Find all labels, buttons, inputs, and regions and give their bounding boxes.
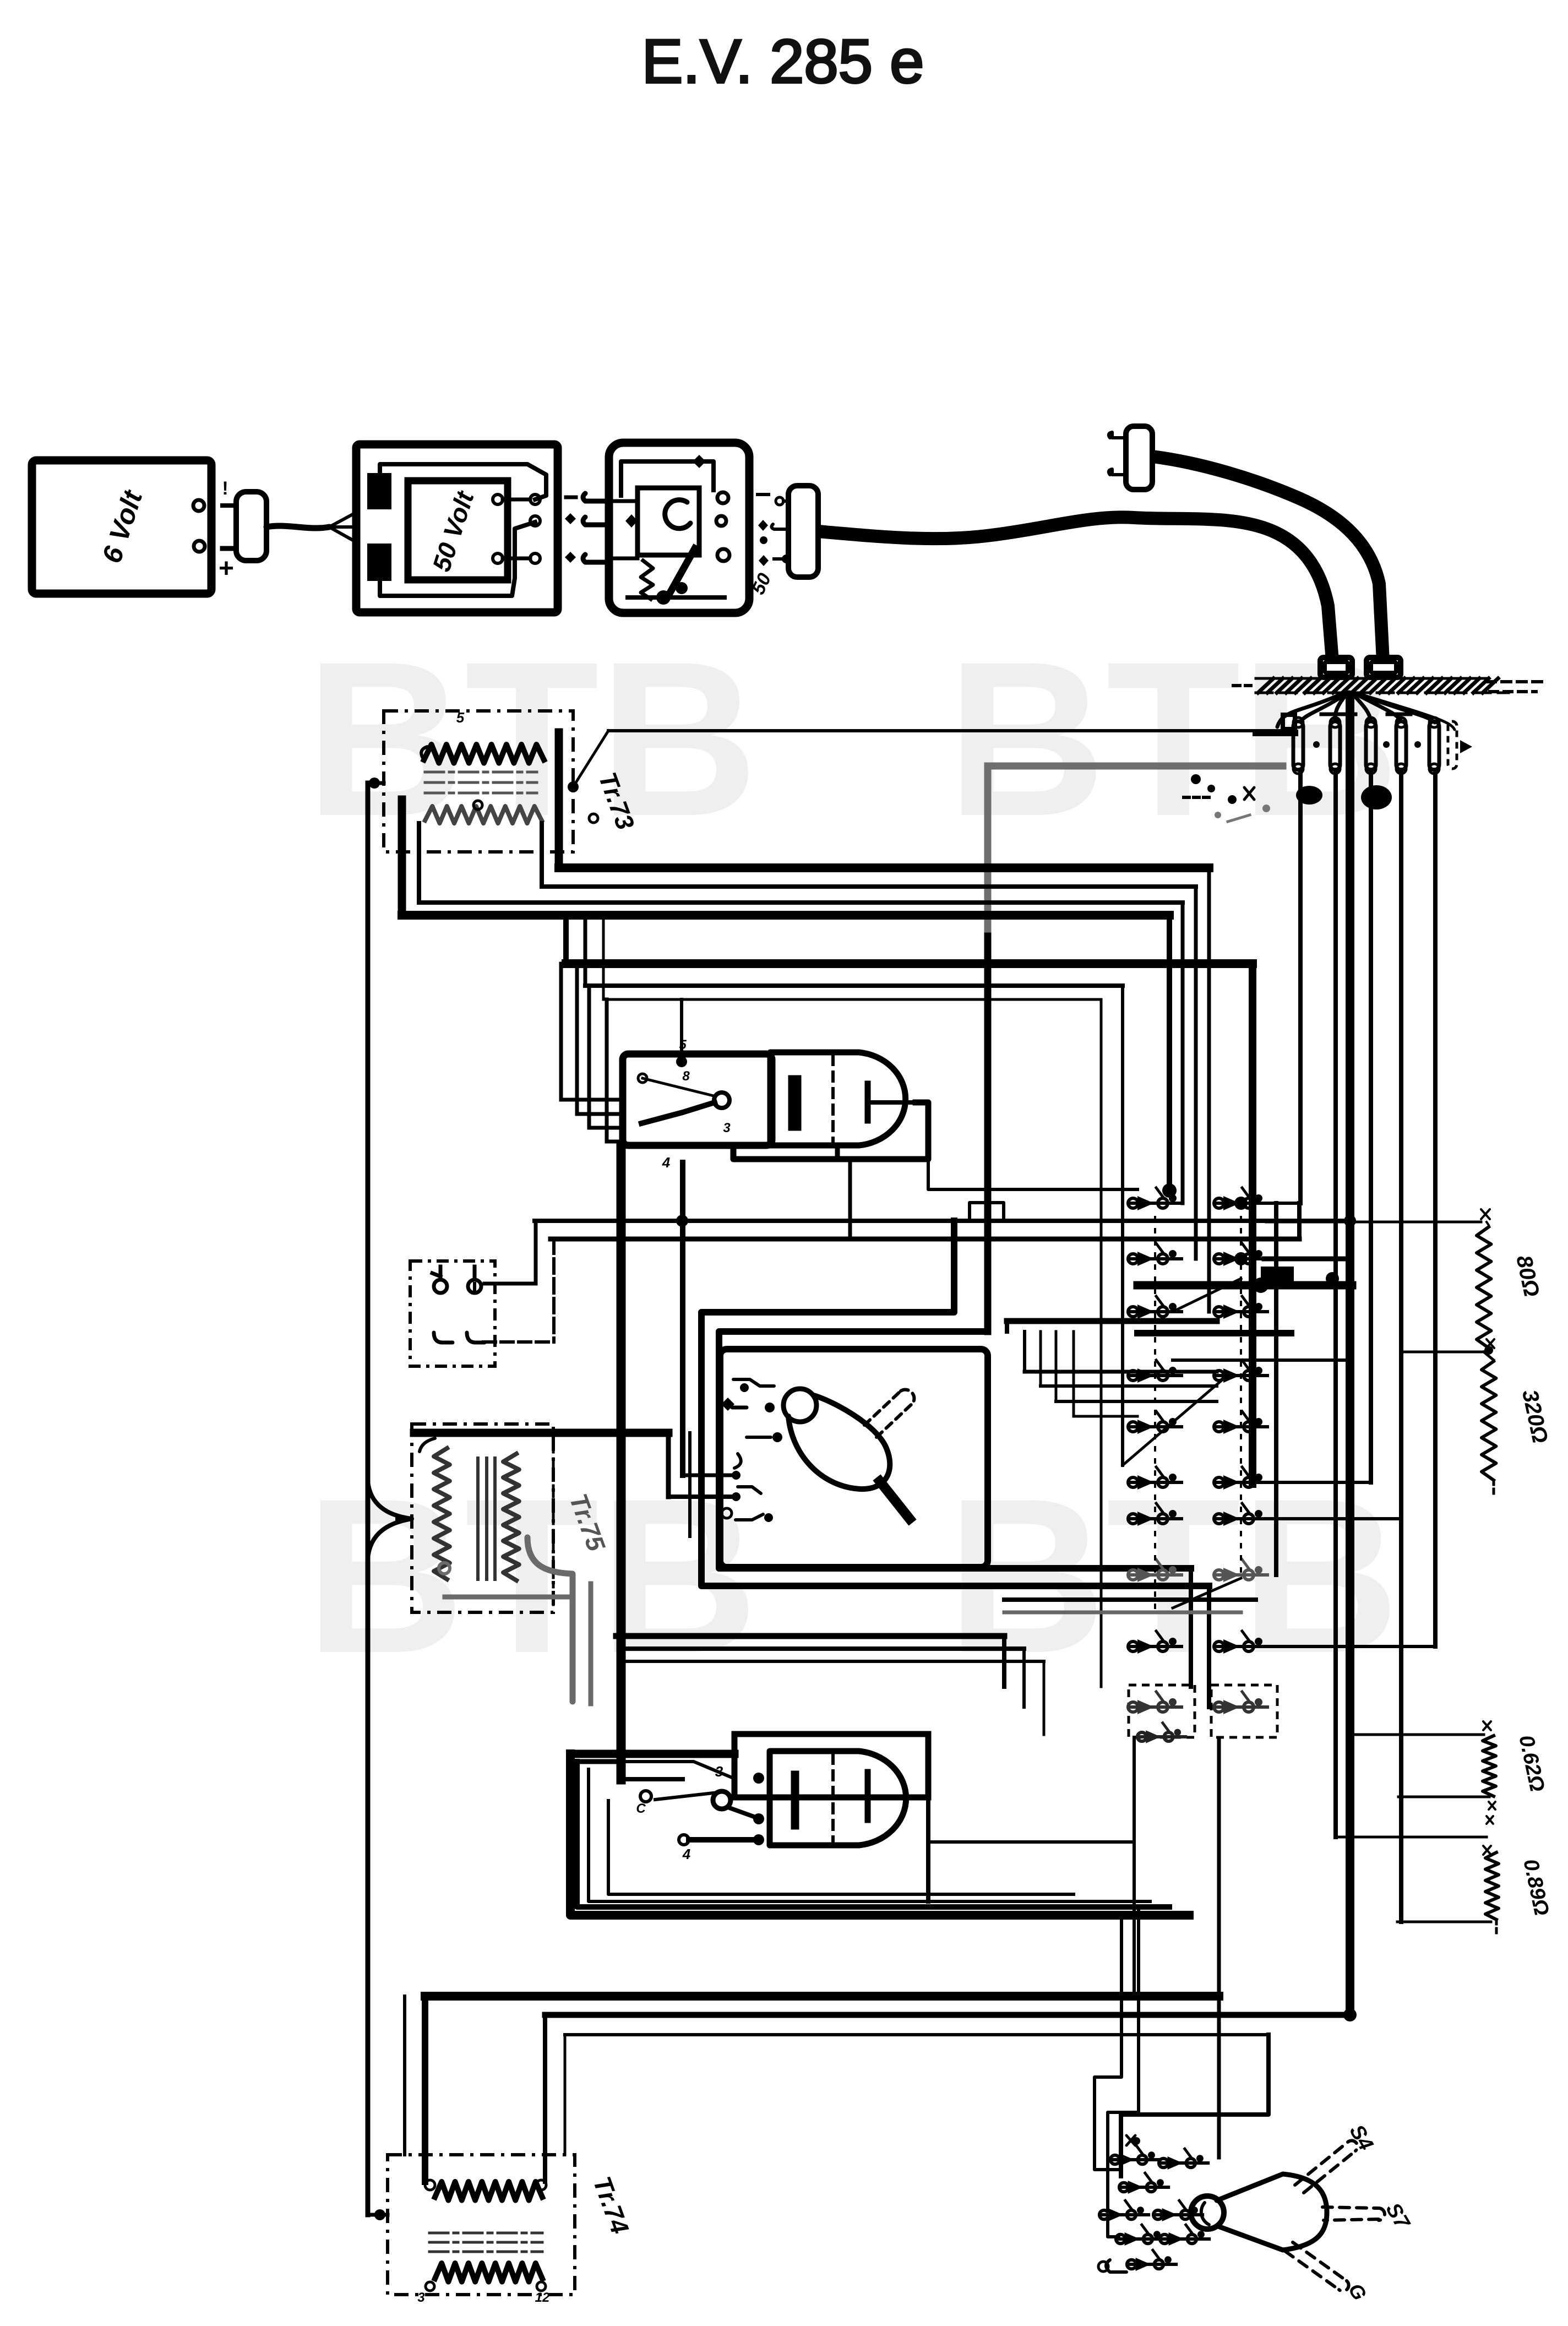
vibrator lever	[669, 548, 695, 594]
connector pin row	[1283, 714, 1472, 774]
tube2 terminal dot 1	[753, 1773, 764, 1784]
bundle corner b3 down	[1100, 999, 1103, 1687]
tube3 lead S4 dashed	[1295, 2140, 1358, 2193]
terminal box stub 2	[473, 1267, 477, 1276]
terminal box wire up	[473, 1284, 476, 1293]
vibrator bottom junction	[656, 590, 671, 605]
transformer Tr.74 dashed box	[388, 2155, 575, 2295]
tube1 grid bar	[790, 1077, 800, 1129]
plug P2 prong 2	[771, 524, 788, 529]
contact right column row 1	[1214, 1188, 1267, 1210]
cord battery to transformer	[266, 526, 329, 528]
transformer Tr.73 label	[593, 769, 640, 834]
transformer Tr.75 right coil	[503, 1454, 519, 1580]
title text E.V. 285 e	[642, 27, 924, 96]
meter lower hooks	[736, 1487, 773, 1522]
wire thick y2602	[414, 1429, 668, 1437]
tube2 anode T vertical	[865, 1772, 871, 1820]
splotch marks left of pins	[1184, 774, 1270, 822]
stub v2545 contact	[1264, 1517, 1401, 1520]
tube1 label3	[723, 1121, 731, 1135]
vibrator inner top wire	[621, 461, 714, 496]
vert v2607	[1433, 770, 1438, 1646]
wire v1896 down	[1043, 1661, 1046, 1735]
blob under pin 3	[1361, 785, 1392, 809]
transformer T50 pad lower	[369, 545, 390, 579]
wire above tube1	[680, 999, 683, 1058]
wire y2217	[535, 1219, 1352, 1223]
main left vertical wire	[366, 783, 371, 2215]
polarity plus diamond 2	[565, 552, 576, 563]
terminal box circle 1	[434, 1280, 447, 1293]
transformer Tr.75 top hook	[420, 1438, 435, 1452]
tube1 anode T horizontal	[868, 1100, 918, 1105]
stub v2607 contact	[1264, 1645, 1435, 1648]
vibrator prong stub 3	[583, 555, 609, 562]
meter terminal hooks	[721, 1379, 782, 1468]
Tr73 vertical v730	[398, 800, 406, 915]
vert v2545	[1399, 770, 1403, 1922]
contact right column row 2	[1214, 1243, 1267, 1266]
tube3 lead G dashed	[1285, 2242, 1349, 2291]
contact left row11	[1137, 1723, 1185, 1743]
terminal box stub 1	[432, 1267, 440, 1276]
tube3 label G	[1344, 2279, 1371, 2304]
battery polarity mark plus	[219, 554, 234, 583]
wire y2928 gray	[1004, 1611, 1241, 1615]
contact left row10 dashed	[1128, 1685, 1195, 1737]
tube1 switch diagonal	[643, 1078, 714, 1096]
svg-text:!: !	[222, 478, 228, 499]
cluster feed v2068	[1108, 1907, 1139, 2237]
transformer Tr.73 primary coil	[424, 744, 544, 763]
bundle wire b1	[566, 959, 1253, 968]
cable ferrule 2	[1366, 657, 1401, 677]
wire gray corner vertical	[984, 766, 992, 936]
wire corner x1214 down	[666, 1433, 671, 1497]
terminal box circle 2	[468, 1280, 481, 1293]
vibrator prong stub 1	[583, 493, 609, 501]
node on Tr73 left edge	[369, 778, 380, 789]
meter wire left 2	[668, 1494, 732, 1499]
stub v2426 contact	[1264, 1257, 1350, 1262]
battery terminal circle 1	[193, 500, 204, 511]
gray wire from Tr75 bottom	[527, 1537, 591, 1704]
transformer T50 terminal e	[530, 553, 540, 563]
resistor 089 lead	[1336, 1837, 1491, 1855]
tube1 switch box	[623, 1054, 772, 1145]
tube1 label4	[662, 1154, 671, 1171]
tube2 wrap inner2	[608, 1801, 1074, 1894]
wire y2250 corner	[1297, 1203, 1302, 1239]
transformer T50 link d-e	[503, 557, 530, 561]
tube2 contact circle B	[679, 1835, 689, 1845]
tube2 dashed electrode	[831, 1754, 835, 1842]
tube1 bulb outline	[770, 1052, 906, 1145]
thick vertical bottom link	[621, 1777, 683, 1781]
tube2 lever 1	[655, 1793, 714, 1800]
plug P2 body	[788, 486, 818, 577]
contact left column row 3	[1128, 1296, 1182, 1319]
resistor 062 ohm	[1483, 1736, 1496, 1796]
transformer T50 inner wire loop lower	[380, 522, 535, 596]
wire y2399 corner	[1005, 1321, 1009, 1332]
wire y2250 left corner	[483, 1239, 554, 1342]
mark dot	[760, 536, 767, 544]
vert v2318	[1274, 1203, 1278, 1575]
tube3 bulb circle	[1191, 2196, 1224, 2229]
wire v1824 down	[1002, 1636, 1006, 1687]
bundle corner a1 down	[1207, 868, 1211, 1312]
corner v2304 elbow	[1121, 2035, 1268, 2176]
resistor 320 ohm bottom dash	[1493, 1480, 1495, 1498]
vibrator terminal circle 2	[716, 516, 726, 526]
contact right column row 3	[1214, 1296, 1267, 1319]
svg-text:5: 5	[456, 709, 465, 726]
wire y2470	[1173, 1358, 1352, 1362]
Tr73 vertical v761	[417, 823, 421, 903]
plug P1 prong 2	[222, 546, 236, 551]
meter dashed wand	[864, 1390, 914, 1437]
vibrator bottom wire	[628, 595, 725, 600]
wire y2572	[1074, 1415, 1137, 1418]
Tr74 feed v1026	[564, 2035, 567, 2155]
gray wire horizontal	[445, 1595, 567, 1600]
tube3 label S7	[1381, 2199, 1415, 2233]
resistor 062 x mark	[1483, 1721, 1491, 1730]
plug P1 prong 1	[222, 503, 236, 508]
terminal box lower hook 2	[467, 1333, 484, 1343]
svg-text:8: 8	[682, 1069, 690, 1084]
bundle corner b2 down	[1121, 986, 1124, 1465]
transformer T50 terminal d	[493, 553, 503, 563]
Tr73 vertical v1015	[555, 732, 563, 868]
transformer Tr.74 label12	[535, 2290, 550, 2305]
tube1 label5	[679, 1037, 687, 1052]
svg-text:4: 4	[682, 1846, 691, 1862]
contact dashed axis right	[1240, 1217, 1242, 1575]
Tr74 feed v772	[422, 1996, 428, 2182]
contact left row9	[1128, 1631, 1182, 1654]
bundle corner a4 down	[1167, 915, 1172, 1191]
tube1 feed v1	[561, 964, 623, 1100]
resistor 062 bottom marks	[1487, 1802, 1495, 1824]
tube2 wrap outer	[570, 1754, 1189, 1915]
tube1 feed v3	[589, 986, 623, 1128]
meter pivot circle	[783, 1389, 816, 1422]
partial rect right of tube1	[970, 1203, 1004, 1221]
bundle wire b3	[603, 998, 1101, 1001]
wire y3345 right	[930, 1840, 1134, 1844]
vert v2490	[1369, 770, 1373, 1482]
tube1 switch contact small	[638, 1074, 647, 1083]
resistor 80 ohm lead	[1266, 1221, 1481, 1224]
left vertical jog to Tr75	[368, 1481, 414, 1558]
transformer T50 terminal b	[530, 494, 540, 504]
junction blob right col r2	[1234, 1252, 1248, 1265]
wire v1861	[1023, 1332, 1026, 1372]
resistor 80 ohm x mark	[1481, 1209, 1490, 1225]
transformer Tr.73 coil end hook	[421, 747, 427, 760]
resistor 089 label	[1518, 1857, 1553, 1917]
contact left column row 5	[1128, 1411, 1182, 1434]
transformer Tr.73 secondary coil	[425, 806, 542, 823]
wire A node dot	[568, 781, 579, 792]
svg-text:+: +	[219, 554, 234, 583]
wire gray lower vertical	[984, 936, 992, 1332]
transformer Tr.73 label pointer	[573, 786, 577, 789]
fanout wires from bus	[1277, 693, 1455, 730]
main thick vertical wire	[617, 1145, 626, 1780]
tube1 switch contact blob	[676, 1056, 687, 1067]
transformer T50 label	[427, 487, 480, 575]
transformer T50 link a-b	[503, 498, 530, 502]
thick bar y2334	[1137, 1281, 1352, 1290]
Tr73 vertical v984	[540, 823, 544, 887]
resistor 320 ohm lead	[1404, 1352, 1494, 1360]
wire v1918	[1055, 1332, 1058, 1401]
tube2 terminal dot 2	[753, 1813, 764, 1824]
tube1 label8	[682, 1069, 690, 1084]
transformer Tr.74 coil terminals	[425, 2180, 546, 2190]
transformer T50 outer box	[356, 444, 558, 612]
ground bus bar hatched	[1233, 678, 1542, 693]
Tr74 feed v735	[403, 1996, 406, 2155]
polarity plus diamond 1	[565, 513, 576, 524]
vertical x1253 stub	[688, 1433, 692, 1536]
transformer Tr.74 label	[587, 2173, 634, 2238]
transformer Tr.73 pin5 label	[456, 709, 465, 726]
wire stub into pin1	[1256, 730, 1295, 736]
wire y2545	[1056, 1400, 1217, 1403]
resistor 320 ohm x mark	[1487, 1339, 1494, 1348]
wire y2421 thick	[1137, 1330, 1291, 1336]
junction blob right col r1	[1234, 1197, 1248, 1210]
transformer Tr.75 label	[564, 1490, 611, 1556]
vert v2362	[1298, 770, 1303, 1203]
bundle wire a2	[542, 884, 1196, 889]
vibrator left link 2	[609, 557, 638, 561]
vibrator lever blob	[676, 582, 688, 594]
svg-text:12: 12	[535, 2290, 550, 2305]
bundle wire b1 stub	[563, 915, 569, 964]
tube2 thick bottom wire	[689, 1837, 759, 1843]
meter wire left 1	[683, 1474, 732, 1477]
wire y2517	[1041, 1384, 1217, 1388]
contact diagonal 3	[1173, 1578, 1241, 1608]
vibrator zigzag spring	[641, 561, 653, 599]
transformer Tr.74 label3	[417, 2290, 425, 2305]
resistor 089 bottom lead	[1397, 1920, 1496, 1933]
plug P3 body	[1126, 426, 1152, 490]
vert v2060	[1133, 1737, 1136, 1996]
bundle corner a2 down	[1194, 887, 1198, 1259]
stub v2362 contact	[1264, 1202, 1300, 1205]
bundle wire a1	[559, 863, 1209, 872]
bundle wire b2 stub	[584, 915, 587, 986]
corner v2214 down	[1217, 1740, 1221, 2157]
vertical x1240	[680, 1162, 685, 1475]
wire below tube1 down	[848, 1162, 852, 1239]
tube3 body	[1217, 2174, 1327, 2250]
tube2 anode T horizontal	[868, 1795, 918, 1800]
bundle corner b1 down	[1249, 964, 1256, 1484]
tube2 contact circle A	[640, 1791, 651, 1802]
resistor 80 ohm	[1477, 1227, 1491, 1348]
tube3 inner arc	[1201, 2203, 1209, 2225]
vert v2426	[1333, 770, 1338, 1837]
bundle wire b3 stub	[602, 915, 605, 999]
wire y2250	[551, 1237, 1299, 1242]
cable from plug P3	[1152, 456, 1383, 661]
resistor 062 lead	[1352, 1733, 1484, 1736]
contact right row9	[1214, 1631, 1267, 1654]
transformer Tr.73 dashed box	[384, 711, 573, 852]
tube1 feed v4	[607, 999, 623, 1142]
wire y3625 thick	[425, 1992, 1219, 2001]
contact right column row 5	[1214, 1411, 1267, 1434]
stub v2490 contact	[1264, 1481, 1371, 1484]
wire y3017	[620, 1660, 1044, 1663]
meter box	[720, 1349, 988, 1567]
wrap wire outer corner down	[1207, 1586, 1211, 1707]
mark 50	[748, 570, 775, 597]
svg-text:E.V. 285 e: E.V. 285 e	[642, 27, 924, 96]
tube2 upper right box	[734, 1734, 928, 1797]
plug P3 prong 2	[1109, 469, 1126, 475]
contact right row10 dashed	[1211, 1685, 1277, 1737]
tube2 label3	[715, 1763, 723, 1780]
thick v2452 from pins	[1346, 695, 1354, 2015]
cable ferrule 1	[1320, 657, 1352, 677]
wrap wire inner	[719, 1332, 1191, 1568]
wire y3659 med	[545, 2012, 1350, 2018]
plug P2 prong 3 dot	[782, 555, 791, 563]
junction blob b1	[1261, 1267, 1294, 1289]
contact left row8 gray	[1128, 1559, 1182, 1582]
tube2 wrap mid	[577, 1762, 1169, 1907]
tube3 label S4	[1345, 2121, 1378, 2154]
contact left column row 1	[1128, 1188, 1182, 1210]
battery B1 label	[96, 486, 148, 567]
wrap wire outer	[701, 1221, 1209, 1586]
tube1 switch lever	[641, 1102, 715, 1123]
svg-text:3: 3	[723, 1121, 731, 1135]
battery terminal circle 2	[194, 541, 205, 552]
bottom contact cluster	[1099, 2145, 1209, 2271]
transformer Tr.74 core lines	[429, 2233, 542, 2252]
tube2 switch top wire	[623, 1762, 734, 1779]
wire v1860 down	[1022, 1649, 1026, 1707]
resistor 80 ohm bottom node	[1484, 1346, 1493, 1355]
wire v1890	[1039, 1332, 1042, 1386]
transformer Tr.75 dashed box	[412, 1424, 553, 1612]
tube1 lower small hook	[835, 1145, 840, 1159]
junction dot y2217	[676, 1215, 688, 1227]
svg-text:3: 3	[417, 2290, 425, 2305]
transformer Tr.75 left coil	[434, 1448, 450, 1579]
mark minus	[758, 493, 769, 496]
svg-text:C: C	[636, 1801, 646, 1816]
tube2 labelC	[636, 1801, 646, 1816]
cluster top x mark	[1126, 2135, 1140, 2145]
mark plus 2	[759, 555, 769, 566]
junction y2217 x2452	[1344, 1215, 1356, 1227]
plug P2 prong 3	[774, 557, 788, 561]
wire tube1 to contacts	[928, 1159, 1137, 1189]
wire y2217 left corner	[484, 1221, 536, 1284]
gray hook small	[439, 1563, 450, 1574]
tube2 wrap inner	[589, 1769, 1150, 1901]
node on Tr74 left edge	[374, 2209, 385, 2220]
vibrator prong stub 2	[583, 517, 609, 525]
plug P1 body	[236, 492, 266, 561]
bundle wire a4	[402, 911, 1169, 920]
contact left column row 6	[1128, 1467, 1182, 1490]
wire A top horizontal	[608, 729, 1286, 732]
contact left column row 4	[1128, 1360, 1182, 1383]
tube1 anode T vertical	[865, 1084, 871, 1121]
polarity minus between boxes	[566, 496, 576, 499]
transformer Tr.74 primary coil	[435, 2182, 542, 2200]
wire y3695 thin	[565, 2033, 1268, 2036]
resistor 062 label	[1514, 1733, 1549, 1794]
thick bar y2334 blob	[1253, 1272, 1339, 1293]
vibrator horseshoe	[665, 500, 690, 529]
battery polarity mark minus	[222, 478, 228, 499]
wrap wire inner corner down	[1189, 1568, 1193, 1687]
svg-text:5: 5	[679, 1037, 687, 1052]
cluster feed v2037	[1095, 1915, 1121, 2170]
contact diagonal 2	[1123, 1379, 1223, 1465]
wire y2491	[1025, 1370, 1217, 1374]
transformer T50 terminal c	[530, 516, 540, 526]
vibrator junction diamond	[693, 455, 706, 468]
transformer T50 terminal a	[493, 494, 503, 504]
resistor 320 ohm	[1482, 1361, 1496, 1480]
meter left terminal dots	[722, 1471, 741, 1518]
svg-text:4: 4	[662, 1154, 671, 1171]
contact right column row 7	[1214, 1503, 1267, 1526]
resistor 80 ohm label	[1511, 1253, 1544, 1299]
wire v1950	[1072, 1332, 1075, 1416]
meter solid wand	[880, 1481, 910, 1519]
cord fork	[329, 512, 357, 542]
vibrator terminal circle 1	[717, 492, 728, 503]
tube1 feed v2	[577, 964, 623, 1114]
tube1 switch pivot	[714, 1093, 729, 1108]
vibrator left diamond	[625, 514, 638, 528]
transformer Tr.73 core lines	[425, 772, 537, 793]
svg-text:BTB: BTB	[306, 616, 758, 862]
transformer Tr.75 core lines	[478, 1458, 495, 1579]
transformer Tr.75 dash vertical	[552, 1432, 555, 1608]
cluster hooks	[1098, 2260, 1126, 2272]
wire y2399 thick	[1007, 1318, 1217, 1324]
junction blob r1	[1162, 1183, 1177, 1198]
transformer Tr.73 sec terminal	[473, 801, 598, 823]
contact left column row 7	[1128, 1503, 1182, 1526]
vibrator left link	[609, 499, 638, 503]
tube1 right terminal wire	[733, 1102, 928, 1159]
tube2 label4	[682, 1846, 691, 1862]
contact right column row 6	[1214, 1467, 1267, 1490]
junction y3659 x2452	[1343, 2008, 1357, 2021]
tube1 dashed electrode	[831, 1056, 835, 1143]
transformer T50 core box	[408, 481, 508, 580]
left vertical top hook	[368, 781, 384, 785]
left vertical bottom hook	[368, 2213, 388, 2217]
